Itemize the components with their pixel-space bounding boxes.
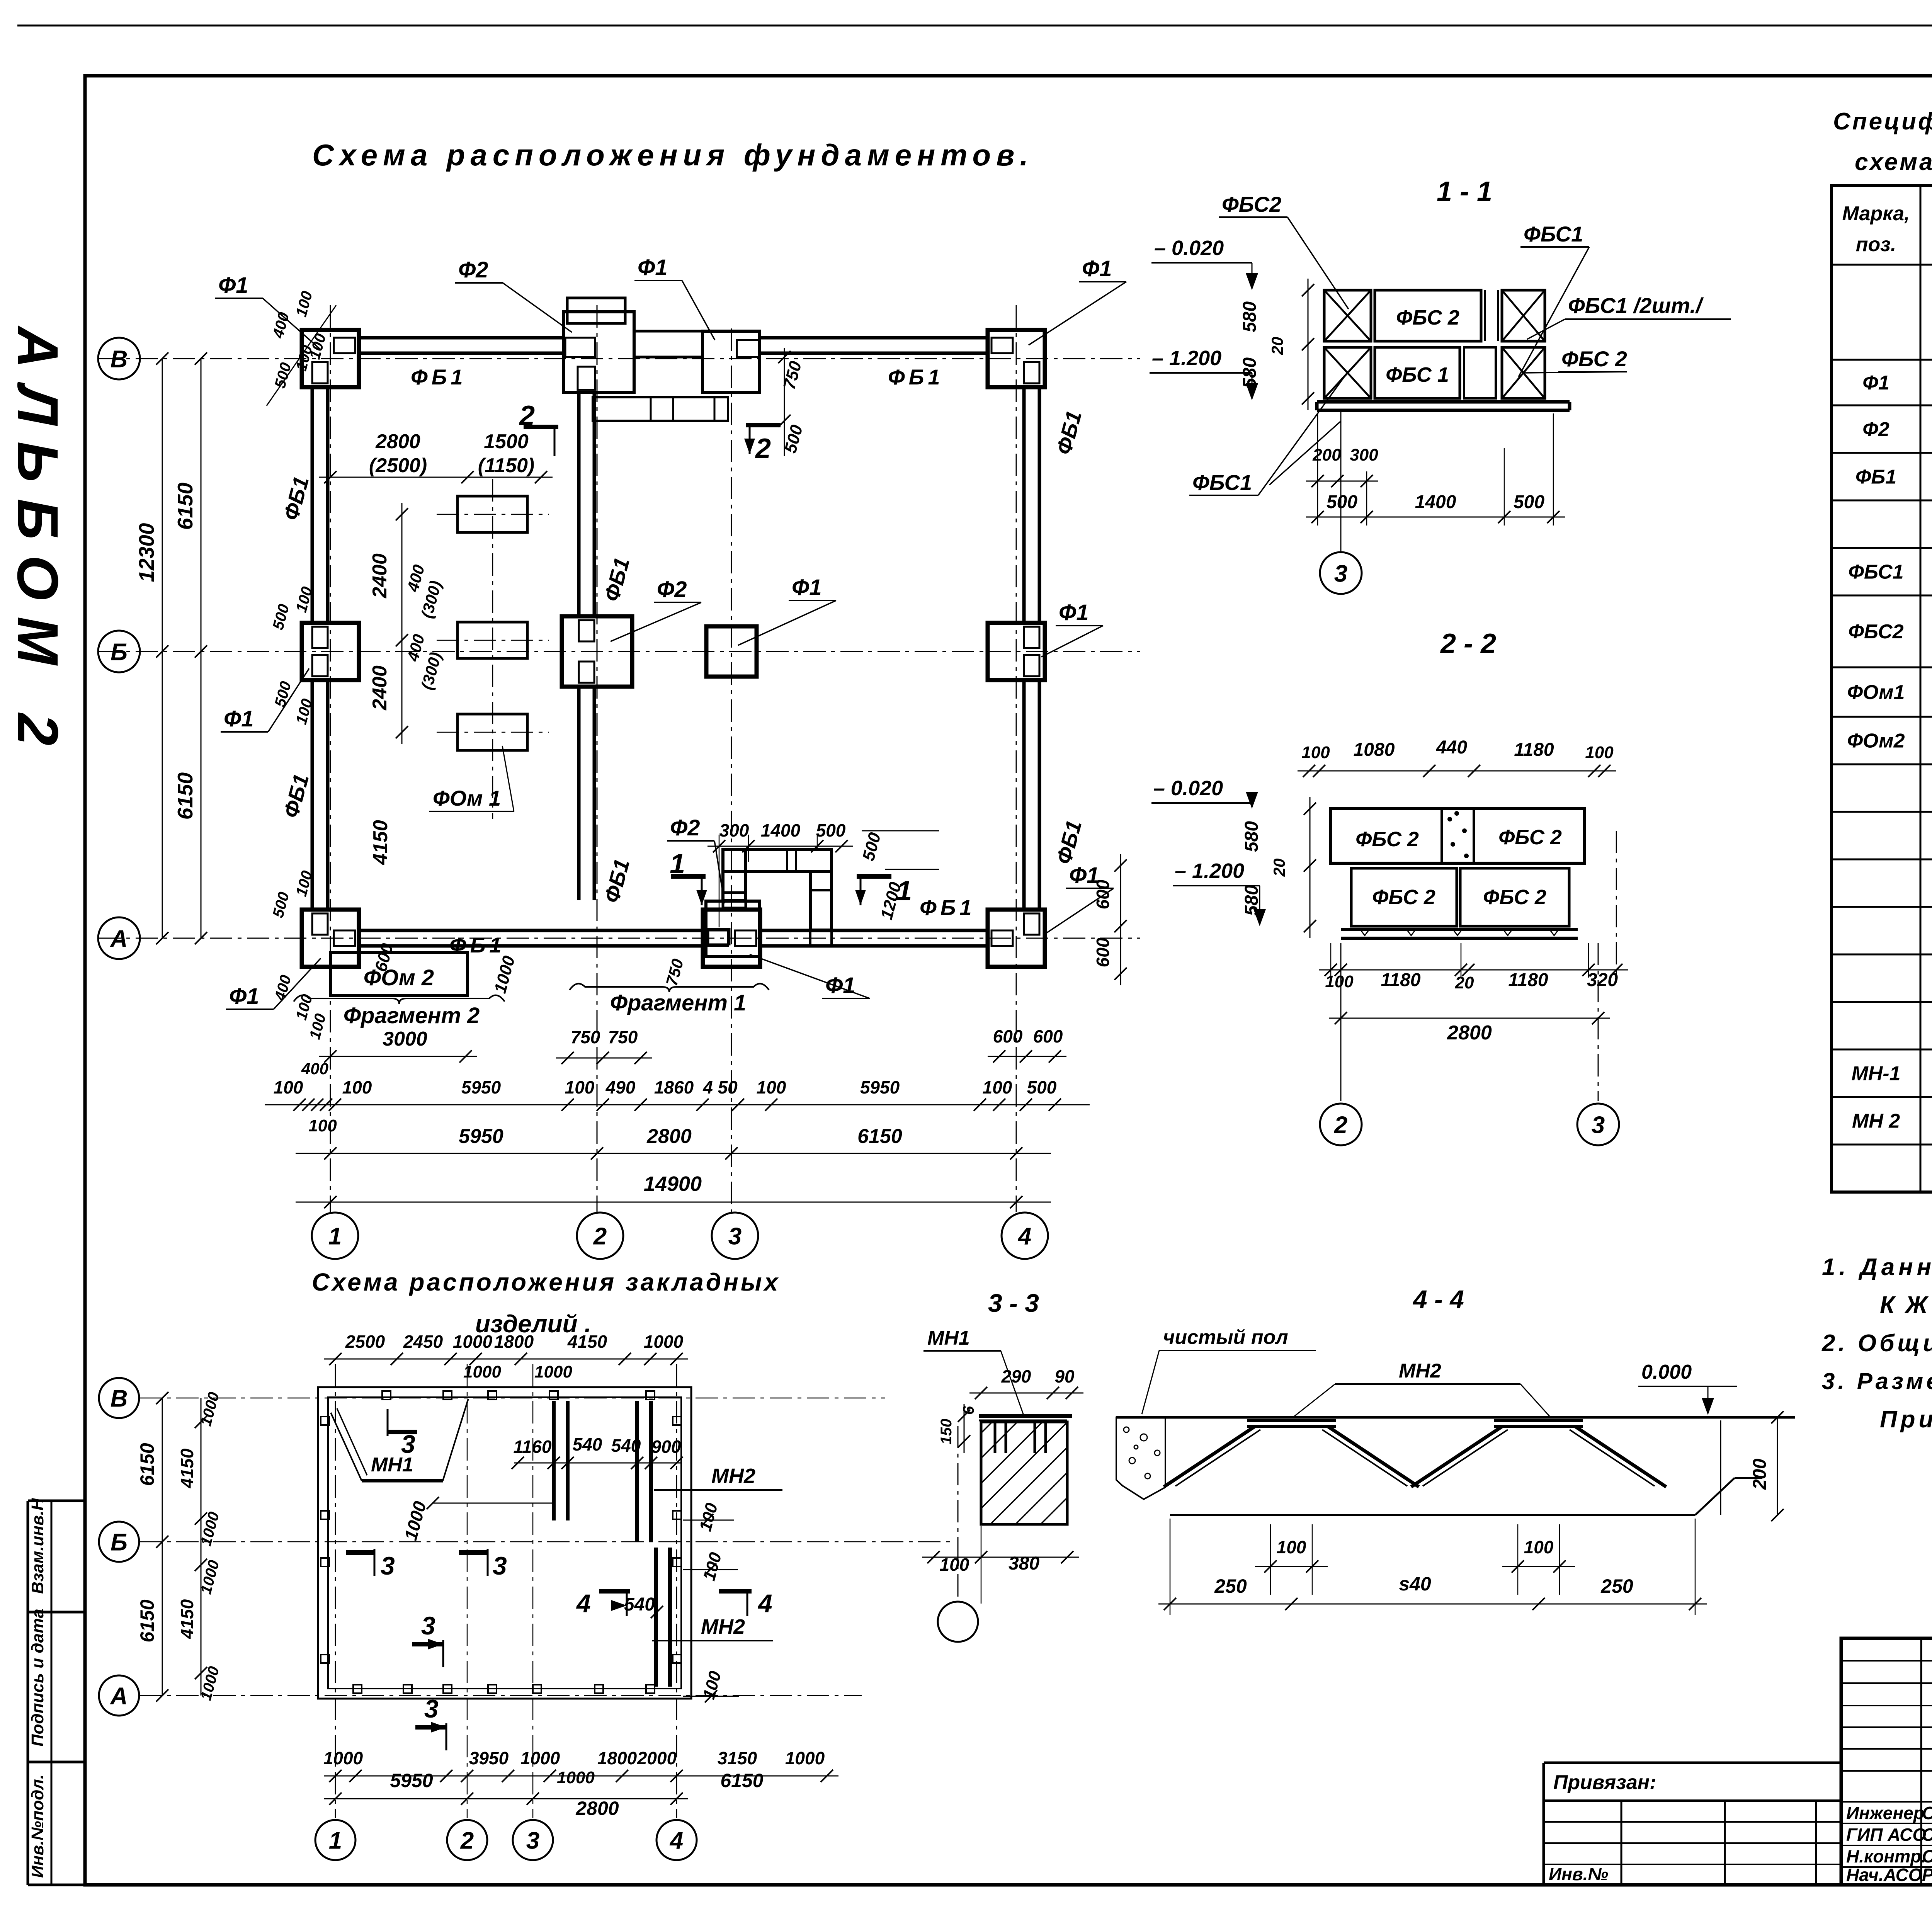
svg-text:6150: 6150 xyxy=(857,1125,902,1148)
svg-text:3: 3 xyxy=(493,1551,507,1580)
svg-text:1180: 1180 xyxy=(1514,740,1554,760)
lower plan dim 1000 МН2 xyxy=(400,1497,553,1543)
grid bubble А xyxy=(98,917,140,959)
svg-text:ФБС 2: ФБС 2 xyxy=(1498,826,1562,849)
svg-text:1180: 1180 xyxy=(1381,970,1421,990)
svg-text:500: 500 xyxy=(1027,1077,1057,1097)
section cut 1 left xyxy=(670,849,707,905)
svg-text:20: 20 xyxy=(1268,337,1286,355)
svg-text:100: 100 xyxy=(1524,1537,1554,1557)
section 4-4 right break xyxy=(1721,1411,1784,1521)
svg-text:1500: 1500 xyxy=(484,430,529,453)
svg-text:580: 580 xyxy=(1242,821,1262,852)
svg-text:100: 100 xyxy=(308,1116,337,1135)
svg-text:Олейникова: Олейникова xyxy=(1922,1803,1932,1823)
МН2 label section 4-4 xyxy=(1294,1360,1549,1416)
svg-text:Фрагмент 2: Фрагмент 2 xyxy=(344,1003,480,1028)
lower plan top dims xyxy=(324,1332,688,1381)
section 2-2 level marks xyxy=(1151,777,1266,926)
label Ф1 bottom-right xyxy=(1043,863,1114,935)
svg-text:600: 600 xyxy=(1093,937,1113,967)
svg-text:схема расположения закладных: схема расположения закладных изделий. xyxy=(1855,149,1932,175)
svg-text:1000: 1000 xyxy=(520,1748,560,1768)
svg-text:– 1.200: – 1.200 xyxy=(1175,859,1244,883)
section 1-1 labels xyxy=(1189,192,1731,495)
svg-text:1400: 1400 xyxy=(1415,492,1456,512)
svg-text:600: 600 xyxy=(1033,1026,1063,1046)
dim 2800/1500 xyxy=(319,430,553,483)
spec table header text xyxy=(1842,202,1932,256)
section 4-4 bottom soil line xyxy=(1170,1478,1762,1515)
left margin stamp boxes xyxy=(28,1498,85,1885)
svg-text:1000: 1000 xyxy=(644,1332,684,1352)
МН1 trapezoid xyxy=(331,1399,468,1481)
svg-text:5950: 5950 xyxy=(390,1770,433,1791)
equipment foundation ФОм1 rect 3 xyxy=(457,714,527,750)
svg-text:4 50: 4 50 xyxy=(702,1077,738,1097)
svg-text:Взам.инв.Н: Взам.инв.Н xyxy=(28,1498,47,1594)
anchor МН2 xyxy=(1411,1420,1666,1487)
svg-text:Ф2: Ф2 xyxy=(1862,418,1889,441)
lower plan inner dims 1160 540 540 900 xyxy=(512,1434,683,1469)
masonry band В 2-3 xyxy=(593,331,728,421)
svg-text:1860: 1860 xyxy=(654,1077,694,1097)
svg-text:2800: 2800 xyxy=(1447,1022,1492,1044)
svg-text:(2500): (2500) xyxy=(369,454,427,477)
svg-text:250: 250 xyxy=(1214,1575,1247,1597)
section cut 2 top xyxy=(519,400,558,456)
svg-text:6150: 6150 xyxy=(173,772,197,820)
label Ф2 bottom xyxy=(667,815,724,903)
svg-text:МН2: МН2 xyxy=(701,1615,745,1638)
svg-text:– 0.020: – 0.020 xyxy=(1153,777,1223,800)
svg-text:540: 540 xyxy=(611,1435,641,1456)
svg-text:Фрагмент 1: Фрагмент 1 xyxy=(610,990,747,1015)
notes xyxy=(1821,1254,1932,1433)
svg-text:2450: 2450 xyxy=(403,1332,443,1352)
svg-text:Ф1: Ф1 xyxy=(638,255,668,280)
svg-text:2400: 2400 xyxy=(369,553,391,599)
svg-text:МН2: МН2 xyxy=(711,1464,755,1488)
svg-text:90: 90 xyxy=(1054,1366,1075,1386)
svg-text:1800: 1800 xyxy=(494,1332,534,1352)
svg-text:2800: 2800 xyxy=(375,430,420,453)
svg-text:ФБС2: ФБС2 xyxy=(1848,621,1903,643)
svg-text:Инженер: Инженер xyxy=(1846,1803,1924,1823)
svg-text:Нач.АСО: Нач.АСО xyxy=(1846,1865,1922,1885)
svg-text:540: 540 xyxy=(573,1434,602,1454)
bottom dim row 3 (14900) xyxy=(296,1172,1051,1208)
svg-text:ФОм 1: ФОм 1 xyxy=(433,786,501,810)
svg-text:3: 3 xyxy=(526,1827,539,1854)
section 4-4 under-anchor dims xyxy=(1158,1519,1707,1615)
svg-text:Ф2: Ф2 xyxy=(670,815,700,840)
svg-text:4: 4 xyxy=(669,1827,683,1854)
lower plan right small dims 100 xyxy=(683,1501,739,1702)
svg-text:Инв.№подл.: Инв.№подл. xyxy=(28,1774,47,1878)
fragment underline 1 xyxy=(570,984,769,1015)
svg-text:3150: 3150 xyxy=(718,1748,757,1768)
svg-text:Схема расположения закладных: Схема расположения закладных xyxy=(312,1268,780,1296)
pad Ф1 at В/1 xyxy=(302,330,359,387)
svg-text:КЖ 1 , КЖ 3, КЖ 4.: КЖ 1 , КЖ 3, КЖ 4. xyxy=(1880,1292,1932,1318)
label Ф1 left-mid xyxy=(221,668,309,732)
lower plan inner rect xyxy=(328,1397,681,1689)
svg-text:ФБС1: ФБС1 xyxy=(1524,222,1583,246)
svg-text:20: 20 xyxy=(1455,973,1474,992)
svg-text:1. Данный чертёж смотрите: 1. Данный чертёж смотрите совместно с ли… xyxy=(1822,1254,1932,1281)
svg-text:Ф1: Ф1 xyxy=(1059,600,1089,625)
fragment 1 equipment foundation cluster xyxy=(723,850,832,947)
pad Ф1 at А/1 xyxy=(302,910,359,967)
svg-text:5950: 5950 xyxy=(860,1077,900,1097)
wall beam ФБ1 top (В) segment 1-2 xyxy=(359,336,564,340)
section 2-2 bubbles xyxy=(1320,943,1362,1145)
pad Ф1 at Б/1 xyxy=(302,623,359,680)
svg-text:s40: s40 xyxy=(1399,1573,1431,1595)
svg-text:100: 100 xyxy=(1277,1537,1306,1557)
dim 600 600 right lower xyxy=(988,1026,1066,1063)
0.000 level xyxy=(1638,1361,1737,1415)
svg-text:6: 6 xyxy=(960,1406,977,1415)
section 4-4 concrete patch xyxy=(1116,1417,1165,1499)
wall beam ФБ1 middle (axis 2) xyxy=(577,393,581,617)
lower plan grid horizontals xyxy=(139,1398,951,1696)
svg-text:3 - 3: 3 - 3 xyxy=(988,1289,1039,1317)
svg-text:4150: 4150 xyxy=(177,1448,197,1488)
lower plan outer rect xyxy=(318,1387,691,1699)
svg-text:100: 100 xyxy=(274,1077,303,1097)
svg-text:6150: 6150 xyxy=(136,1599,158,1642)
svg-text:1000: 1000 xyxy=(785,1748,825,1768)
svg-text:МН1: МН1 xyxy=(927,1327,970,1349)
svg-text:2800: 2800 xyxy=(646,1125,692,1148)
svg-text:Ф1: Ф1 xyxy=(825,973,855,998)
svg-text:6150: 6150 xyxy=(720,1770,763,1791)
svg-text:1000: 1000 xyxy=(557,1768,595,1787)
small dim cluster near В xyxy=(267,289,336,406)
equipment foundation ФОм1 rect 1 xyxy=(457,496,527,532)
svg-text:Сорокин: Сорокин xyxy=(1922,1846,1932,1866)
wall beam ФБ1 right (axis 4) xyxy=(1022,387,1026,623)
section 3-3 block xyxy=(979,1416,1072,1524)
svg-text:ФБ1: ФБ1 xyxy=(920,895,976,920)
svg-text:4150: 4150 xyxy=(369,820,392,865)
svg-text:Ф1: Ф1 xyxy=(224,706,254,731)
svg-text:ФБ1: ФБ1 xyxy=(1855,466,1896,488)
lower plan bubbles bottom xyxy=(315,1820,355,1860)
svg-text:(1150): (1150) xyxy=(478,454,534,477)
lower plan bottom dims row1 xyxy=(323,1748,838,1782)
svg-text:1800: 1800 xyxy=(597,1748,637,1768)
svg-text:ФБС 2: ФБС 2 xyxy=(1396,306,1459,329)
section 1-1 bottom dims xyxy=(1306,413,1565,526)
label Ф1 top-mid xyxy=(634,255,715,340)
svg-text:4: 4 xyxy=(757,1589,772,1617)
МН2 label 2 xyxy=(652,1615,773,1641)
svg-text:Подпись и дата: Подпись и дата xyxy=(28,1609,47,1747)
svg-text:5950: 5950 xyxy=(459,1125,503,1148)
svg-text:100: 100 xyxy=(940,1554,969,1575)
section 2-2 bottom dims xyxy=(1319,831,1628,1044)
svg-text:4150: 4150 xyxy=(567,1332,607,1352)
svg-text:ФБС2: ФБС2 xyxy=(1222,192,1281,216)
svg-text:Спецификация к схеме располо: Спецификация к схеме расположения фундам… xyxy=(1833,108,1932,135)
svg-text:580: 580 xyxy=(1240,301,1260,332)
svg-text:2000: 2000 xyxy=(637,1748,677,1768)
svg-text:ФОм1: ФОм1 xyxy=(1847,681,1905,704)
svg-text:3950: 3950 xyxy=(469,1748,509,1768)
svg-text:100: 100 xyxy=(983,1077,1012,1097)
svg-text:В: В xyxy=(111,1385,128,1412)
svg-text:1: 1 xyxy=(329,1827,342,1854)
bottom dim row 2 xyxy=(296,1116,1051,1160)
svg-text:– 0.020: – 0.020 xyxy=(1154,236,1224,260)
svg-text:2800: 2800 xyxy=(575,1798,619,1819)
svg-text:– 1.200: – 1.200 xyxy=(1152,347,1221,370)
anchor МН2 xyxy=(1164,1420,1419,1487)
svg-text:1000: 1000 xyxy=(463,1362,501,1381)
svg-text:ФБС1 /2шт./: ФБС1 /2шт./ xyxy=(1568,293,1704,318)
lower plan bubbles left xyxy=(99,1378,139,1418)
svg-text:2: 2 xyxy=(593,1223,607,1250)
bottom dim row 1 xyxy=(265,1060,1090,1111)
svg-text:100: 100 xyxy=(1585,743,1614,762)
dim 750 750 below fragment xyxy=(556,1027,652,1064)
svg-text:Инв.№: Инв.№ xyxy=(1549,1864,1608,1884)
section 1-1 assembly xyxy=(1317,290,1570,410)
МН2 bars pair top-mid xyxy=(554,1401,568,1520)
section cut 1 right xyxy=(855,876,912,906)
dim 750 500 near В2 cluster xyxy=(778,348,806,456)
label Ф1 bottom-mid xyxy=(750,954,870,998)
svg-text:20: 20 xyxy=(1270,859,1288,877)
spec table body text xyxy=(1847,287,1932,1142)
svg-text:ФБ1: ФБ1 xyxy=(888,365,944,389)
svg-text:поз.: поз. xyxy=(1856,233,1896,256)
svg-text:3: 3 xyxy=(728,1223,742,1250)
svg-text:320: 320 xyxy=(1587,970,1618,990)
svg-text:14900: 14900 xyxy=(644,1172,702,1196)
svg-text:ФБС 2: ФБС 2 xyxy=(1355,828,1419,851)
svg-text:750: 750 xyxy=(571,1027,600,1047)
section 1-1 bubble 3 xyxy=(1320,410,1362,594)
spec table grid xyxy=(1832,185,1932,1192)
section cut 2 bottom xyxy=(744,425,781,464)
svg-text:490: 490 xyxy=(605,1077,636,1097)
pad Ф1 at В/4 xyxy=(988,330,1045,387)
svg-text:ГИП АСО: ГИП АСО xyxy=(1846,1825,1926,1845)
svg-text:1000: 1000 xyxy=(534,1362,572,1381)
svg-text:Марка,: Марка, xyxy=(1842,202,1910,225)
svg-text:200: 200 xyxy=(1750,1459,1770,1490)
lower plan section 4 marks xyxy=(576,1589,630,1617)
svg-text:Ф1: Ф1 xyxy=(1862,372,1889,394)
lower plan section 3 marks xyxy=(388,1409,417,1458)
svg-text:ФБС 2: ФБС 2 xyxy=(1561,347,1627,371)
section 1-1 leader ФБС1 bottom xyxy=(1269,421,1341,485)
pad Ф1 at А/4 xyxy=(988,910,1045,967)
pad Ф2 at Б/2 xyxy=(562,616,632,687)
svg-text:3: 3 xyxy=(424,1694,439,1723)
svg-text:1160: 1160 xyxy=(514,1437,552,1457)
section 2-2 top dims xyxy=(1298,737,1616,777)
sheet top edge xyxy=(17,25,1932,27)
section 1-1 left dims xyxy=(1240,279,1314,410)
equipment foundation ФОм2 xyxy=(330,952,468,996)
svg-text:2 - 2: 2 - 2 xyxy=(1440,628,1496,659)
title block outer xyxy=(1841,1638,1932,1885)
svg-text:1180: 1180 xyxy=(1508,970,1548,990)
dim 500 1200 right of fragment1 xyxy=(859,830,939,922)
svg-text:2: 2 xyxy=(460,1827,474,1854)
svg-text:500: 500 xyxy=(1514,492,1544,512)
ФОм1 centerline xyxy=(492,479,493,819)
svg-text:250: 250 xyxy=(1600,1575,1633,1597)
grid bubble В xyxy=(98,338,140,379)
label Ф1 top-left xyxy=(215,273,321,350)
svg-text:3. Размеры в скобках для: 3. Размеры в скобках для метантенков объ… xyxy=(1822,1368,1932,1394)
svg-text:1 - 1: 1 - 1 xyxy=(1437,176,1492,207)
svg-text:Ф1: Ф1 xyxy=(218,273,248,298)
svg-text:0.000: 0.000 xyxy=(1641,1361,1692,1383)
svg-text:2400: 2400 xyxy=(369,665,391,711)
svg-text:2: 2 xyxy=(519,400,535,431)
svg-text:2: 2 xyxy=(755,433,771,464)
label Ф1 top-right xyxy=(1029,256,1126,345)
wall beam ФБ1 left (axis 1) xyxy=(311,387,314,623)
label Ф2 mid xyxy=(611,577,701,641)
section 3-3 bubble xyxy=(938,1426,978,1642)
svg-text:100: 100 xyxy=(757,1077,786,1097)
svg-text:Ф2: Ф2 xyxy=(458,257,488,282)
svg-text:540: 540 xyxy=(624,1594,655,1615)
svg-text:3: 3 xyxy=(401,1430,415,1458)
svg-text:4150: 4150 xyxy=(177,1599,197,1639)
svg-text:1080: 1080 xyxy=(1354,740,1395,760)
svg-text:400: 400 xyxy=(301,1060,328,1078)
svg-text:ФБС 1: ФБС 1 xyxy=(1386,363,1449,386)
svg-text:100: 100 xyxy=(342,1077,372,1097)
svg-text:1: 1 xyxy=(670,849,685,879)
svg-text:МН2: МН2 xyxy=(1399,1360,1441,1382)
svg-text:3000: 3000 xyxy=(383,1028,427,1050)
svg-text:ФБ1: ФБ1 xyxy=(449,933,505,957)
left dim chains xyxy=(134,352,207,944)
grid bubble 3 xyxy=(712,1213,758,1259)
svg-text:1000: 1000 xyxy=(323,1748,363,1768)
svg-text:12300: 12300 xyxy=(134,523,158,582)
svg-text:ФБ1: ФБ1 xyxy=(411,365,467,389)
chisty pol label xyxy=(1142,1326,1316,1414)
svg-text:440: 440 xyxy=(1436,737,1467,758)
МН2 bars pair bottom-right xyxy=(656,1548,670,1687)
МН2 label 1 xyxy=(654,1464,782,1490)
svg-text:6150: 6150 xyxy=(136,1443,158,1486)
label Ф1 mid xyxy=(738,575,836,645)
svg-text:4: 4 xyxy=(576,1589,591,1617)
svg-text:100: 100 xyxy=(565,1077,595,1097)
pad Ф1 at В/3 xyxy=(702,331,759,393)
svg-text:6150: 6150 xyxy=(173,482,197,530)
svg-text:500: 500 xyxy=(1327,492,1357,512)
svg-text:600: 600 xyxy=(1093,879,1113,909)
lower plan bottom dims row2 xyxy=(324,1768,764,1819)
svg-text:Схема расположения фунда: Схема расположения фундаментов. xyxy=(312,138,1034,172)
svg-text:3: 3 xyxy=(381,1551,395,1580)
svg-text:290: 290 xyxy=(1001,1366,1031,1386)
svg-text:750: 750 xyxy=(608,1027,638,1047)
wall beam ФБ1 bottom (А) xyxy=(359,929,706,932)
pad Ф2 at А/2 xyxy=(706,901,760,956)
svg-text:1000: 1000 xyxy=(453,1332,493,1352)
svg-text:Ротенштейн: Ротенштейн xyxy=(1922,1865,1932,1885)
label ФОм1 xyxy=(429,746,514,811)
svg-text:Сорокин: Сорокин xyxy=(1922,1825,1932,1845)
svg-text:300: 300 xyxy=(1350,446,1378,464)
svg-text:ФБС 2: ФБС 2 xyxy=(1372,886,1435,909)
title block left grid xyxy=(1841,1638,1932,1885)
small dim cluster near А xyxy=(270,869,330,1041)
svg-text:500: 500 xyxy=(816,820,846,840)
upper plan grid lines horizontal xyxy=(99,359,1140,938)
svg-text:5950: 5950 xyxy=(461,1077,501,1097)
lower plan left dims xyxy=(136,1390,223,1702)
svg-text:2: 2 xyxy=(1334,1112,1347,1138)
svg-text:При привязке ненужное зачер: При привязке ненужное зачеркнуть. xyxy=(1880,1406,1932,1433)
lower plan grid verticals xyxy=(335,1364,677,1818)
svg-text:А: А xyxy=(110,1683,128,1709)
svg-text:100: 100 xyxy=(1301,743,1330,762)
svg-text:300: 300 xyxy=(719,820,749,840)
svg-text:900: 900 xyxy=(651,1437,681,1457)
svg-text:ФОм2: ФОм2 xyxy=(1847,730,1905,752)
dim 2400 2400 vertical xyxy=(369,503,445,865)
svg-text:ФБС1: ФБС1 xyxy=(1848,561,1903,583)
grid bubble 1 xyxy=(312,1213,358,1259)
section 3-3 МН1 label xyxy=(923,1327,1024,1416)
small dim cluster near Б xyxy=(270,585,316,726)
section 4-4 floor line xyxy=(1116,1416,1795,1419)
svg-text:АЛЬБОМ 2: АЛЬБОМ 2 xyxy=(5,325,70,762)
svg-text:Б: Б xyxy=(111,1529,128,1556)
svg-text:МН 2: МН 2 xyxy=(1852,1110,1900,1133)
svg-text:Привязан:: Привязан: xyxy=(1553,1771,1656,1794)
svg-text:3: 3 xyxy=(1334,560,1347,587)
svg-text:2500: 2500 xyxy=(345,1332,385,1352)
pad Ф2 at В/2 with top tab xyxy=(564,298,634,393)
svg-text:2. Общие указания даны: 2. Общие указания даны на листе КЖ 1. xyxy=(1821,1330,1932,1357)
svg-text:ФБС 2: ФБС 2 xyxy=(1483,886,1546,909)
pad Ф1 at Б/3 (standalone) xyxy=(706,626,757,677)
section 3-3 dims xyxy=(922,1366,1083,1604)
fragment underline 2 xyxy=(294,995,505,1063)
svg-text:МН-1: МН-1 xyxy=(1851,1063,1900,1085)
section 2-2 assembly xyxy=(1331,809,1585,938)
lower plan edge tabs xyxy=(321,1391,681,1693)
svg-text:Ф2: Ф2 xyxy=(657,577,687,602)
svg-text:чистый пол: чистый пол xyxy=(1163,1326,1288,1349)
svg-text:4: 4 xyxy=(1017,1223,1031,1250)
equipment foundation ФОм1 rect 2 xyxy=(457,622,527,658)
svg-text:А: А xyxy=(110,925,128,952)
wall beam ФБ1 top (В) segment 3-4 xyxy=(759,336,988,340)
svg-text:200: 200 xyxy=(1312,446,1341,464)
svg-text:В: В xyxy=(111,346,128,372)
privyazan box xyxy=(1544,1763,1841,1885)
svg-text:1: 1 xyxy=(328,1223,342,1250)
svg-text:580: 580 xyxy=(1240,357,1260,388)
